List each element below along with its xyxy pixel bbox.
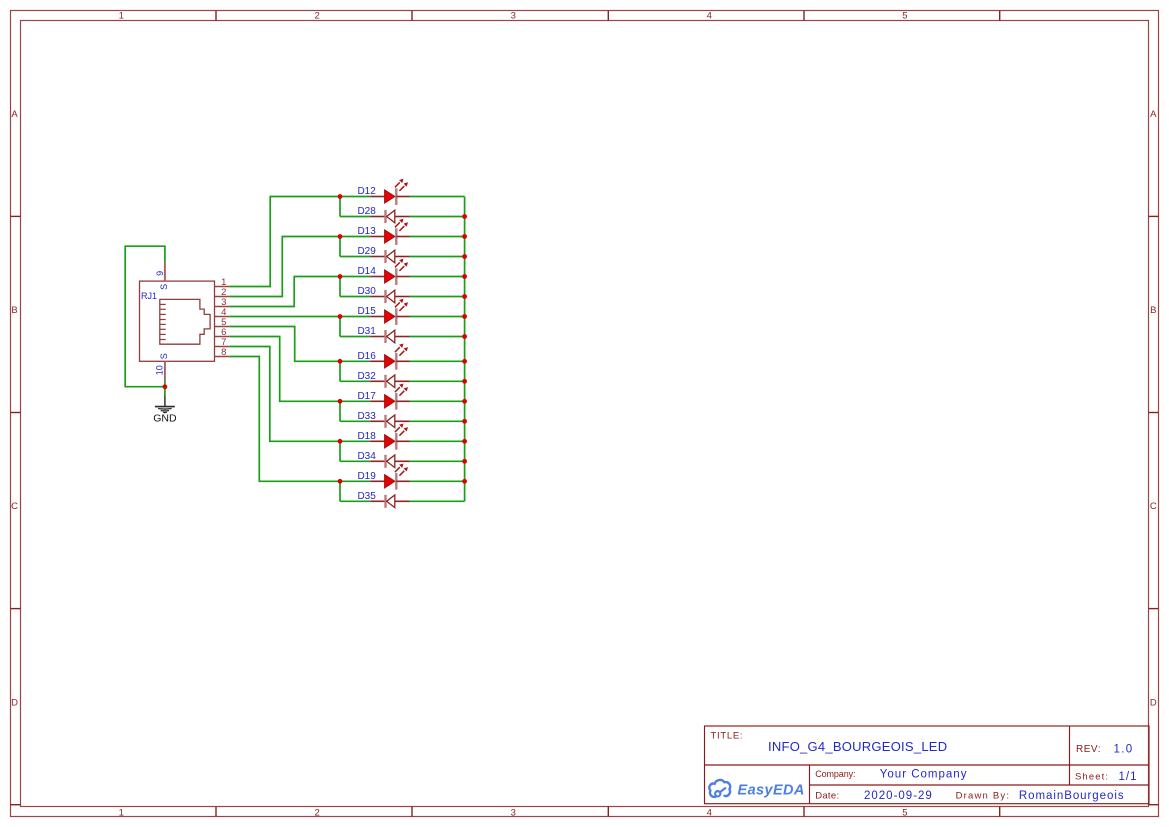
junction bus at y=401.3 (462, 399, 467, 404)
svg-text:D32: D32 (357, 371, 376, 382)
wire RJ1 pin10 to GND node (164, 381, 166, 396)
svg-text:A: A (11, 109, 18, 120)
junction D19 anode node (338, 479, 343, 484)
LED D13 (357, 219, 409, 245)
title block (705, 726, 1150, 804)
wire node D15 anode (340, 316, 370, 318)
svg-text:D: D (11, 697, 18, 708)
wire node D18 anode (340, 440, 370, 442)
svg-text:INFO_G4_BOURGEOIS_LED: INFO_G4_BOURGEOIS_LED (768, 739, 947, 754)
wire node D13 anode (340, 236, 370, 238)
junction bus at y=336.5 (462, 334, 467, 339)
svg-text:Drawn By:: Drawn By: (956, 790, 1011, 801)
svg-text:D17: D17 (357, 391, 376, 402)
wire RJ1 pin 5 to D16 (229, 327, 340, 362)
wire RJ1 pin 7 to D18 (229, 347, 340, 442)
wire D17 to bus (410, 400, 465, 402)
diode D35 (357, 491, 409, 508)
LED D15 (357, 299, 409, 325)
junction GND node (163, 384, 168, 389)
svg-text:D19: D19 (357, 471, 376, 482)
junction bus at y=296.5 (462, 294, 467, 299)
wire D29 cathode stub (340, 256, 370, 258)
svg-text:9: 9 (155, 271, 165, 276)
wire RJ1 pin 6 to D17 (229, 337, 340, 402)
svg-text:D31: D31 (357, 326, 376, 337)
wire D29 to bus (410, 256, 465, 258)
svg-text:10: 10 (155, 365, 165, 375)
svg-text:EasyEDA: EasyEDA (738, 782, 805, 798)
wire D34 to bus (410, 460, 465, 462)
wire junction drop D19 to D35 (339, 481, 341, 501)
svg-text:5: 5 (902, 11, 907, 22)
RJ1 pin 7 (215, 337, 230, 348)
connector RJ1 (140, 281, 215, 361)
svg-text:D33: D33 (357, 411, 376, 422)
wire node D19 anode (340, 480, 370, 482)
wire D32 to bus (410, 380, 465, 382)
wire D28 cathode stub (340, 216, 370, 218)
junction bus at y=361.3 (462, 359, 467, 364)
RJ1 pin 8 (215, 347, 230, 358)
junction D16 anode node (338, 359, 343, 364)
svg-text:S: S (159, 284, 169, 290)
svg-text:D29: D29 (357, 246, 376, 257)
svg-text:D12: D12 (357, 186, 376, 197)
RJ1 pin 3 (215, 297, 230, 308)
junction bus at y=461.3 (462, 459, 467, 464)
wire D14 to bus (410, 276, 465, 278)
junction D12 anode node (338, 194, 343, 199)
svg-text:D: D (1150, 697, 1157, 708)
wire junction drop D18 to D34 (339, 441, 341, 461)
wire right vertical bus (464, 197, 466, 502)
junction D14 anode node (338, 274, 343, 279)
svg-text:8: 8 (221, 347, 226, 358)
svg-text:2020-09-29: 2020-09-29 (864, 790, 933, 802)
LED D17 (357, 384, 409, 410)
RJ1 pin 1 (215, 277, 230, 288)
junction D18 anode node (338, 439, 343, 444)
svg-text:1/1: 1/1 (1119, 771, 1138, 783)
svg-text:Sheet:: Sheet: (1075, 772, 1109, 783)
title block text TITLE (711, 730, 948, 754)
junction D13 anode node (338, 234, 343, 239)
LED D18 (357, 424, 409, 450)
junction bus at y=236.5 (462, 234, 467, 239)
junction bus at y=216.5 (462, 214, 467, 219)
junction bus at y=381.3 (462, 379, 467, 384)
wire RJ1 pin 3 to D14 (229, 277, 340, 307)
RJ1 pin 5 (215, 317, 230, 328)
LED D14 (357, 259, 409, 285)
svg-text:2: 2 (315, 11, 320, 22)
svg-text:C: C (11, 501, 18, 512)
svg-text:D15: D15 (357, 306, 376, 317)
diode D34 (357, 451, 409, 468)
junction D15 anode node (338, 314, 343, 319)
wire node D16 anode (340, 360, 370, 362)
junction D17 anode node (338, 399, 343, 404)
junction bus at y=421.3 (462, 419, 467, 424)
svg-text:D18: D18 (357, 431, 376, 442)
diode D32 (357, 371, 409, 388)
wire junction drop D16 to D32 (339, 361, 341, 381)
wire D32 cathode stub (340, 380, 370, 382)
svg-text:D35: D35 (357, 491, 376, 502)
svg-text:GND: GND (153, 413, 177, 425)
svg-text:Your Company: Your Company (880, 768, 968, 780)
wire junction drop D12 to D28 (339, 197, 341, 217)
LED D19 (357, 464, 409, 490)
wire junction drop D13 to D29 (339, 237, 341, 257)
svg-text:B: B (1150, 305, 1156, 316)
wire RJ1 pin 4 to D15 (229, 316, 340, 318)
svg-text:D13: D13 (357, 226, 376, 237)
wire D12 to bus (410, 196, 465, 198)
wire D18 to bus (410, 440, 465, 442)
title block text Company (815, 768, 967, 780)
svg-text:Date:: Date: (815, 790, 839, 801)
wire D34 cathode stub (340, 460, 370, 462)
wire D35 cathode stub (340, 500, 370, 502)
svg-text:4: 4 (707, 11, 712, 22)
wire junction drop D17 to D33 (339, 401, 341, 421)
wire RJ1 pin 8 to D19 (229, 357, 340, 482)
svg-text:1.0: 1.0 (1114, 743, 1134, 755)
svg-text:S: S (159, 353, 169, 359)
wire D28 to bus (410, 216, 465, 218)
wire junction drop D14 to D30 (339, 277, 341, 297)
svg-text:D16: D16 (357, 351, 376, 362)
svg-text:1: 1 (119, 11, 124, 22)
wire RJ1 pin 1 to D12 (229, 197, 340, 287)
svg-text:Company:: Company: (815, 769, 855, 779)
diode D28 (357, 206, 409, 223)
title block text REV (1076, 743, 1133, 755)
svg-text:D34: D34 (357, 451, 376, 462)
RJ1 pin 10 (S shield) (155, 353, 170, 381)
wire RJ1 pin9 loop to GND node (125, 246, 165, 387)
RJ1 pin 4 (215, 307, 230, 318)
wire D33 to bus (410, 420, 465, 422)
diode D31 (357, 326, 409, 343)
svg-text:D30: D30 (357, 286, 376, 297)
RJ1 pin 6 (215, 327, 230, 338)
wire D30 cathode stub (340, 296, 370, 298)
wire D35 to bus (410, 500, 465, 502)
diode D33 (357, 411, 409, 428)
svg-text:4: 4 (707, 808, 712, 819)
svg-text:D14: D14 (357, 266, 376, 277)
wire node D17 anode (340, 400, 370, 402)
svg-text:5: 5 (902, 808, 907, 819)
title block text Date / Drawn By (815, 790, 1124, 802)
wire RJ1 pin 2 to D13 (229, 237, 340, 297)
wire node D14 anode (340, 276, 370, 278)
wire D31 cathode stub (340, 336, 370, 338)
junction bus at y=481.3 (462, 479, 467, 484)
diode D29 (357, 246, 409, 263)
svg-text:RomainBourgeois: RomainBourgeois (1019, 790, 1125, 802)
wire D19 to bus (410, 480, 465, 482)
svg-text:C: C (1150, 501, 1157, 512)
RJ1 pin 2 (215, 287, 230, 298)
svg-text:D28: D28 (357, 206, 376, 217)
LED D16 (357, 344, 409, 370)
LED D12 (357, 179, 409, 205)
svg-text:A: A (1150, 109, 1157, 120)
svg-text:TITLE:: TITLE: (711, 730, 744, 741)
junction bus at y=256.5 (462, 254, 467, 259)
junction bus at y=316.5 (462, 314, 467, 319)
wire D33 cathode stub (340, 420, 370, 422)
wire D31 to bus (410, 336, 465, 338)
wire junction drop D15 to D31 (339, 317, 341, 337)
wire D16 to bus (410, 360, 465, 362)
wire D13 to bus (410, 236, 465, 238)
EasyEDA logo (709, 780, 804, 798)
svg-text:2: 2 (315, 808, 320, 819)
wire node D12 anode (340, 196, 370, 198)
wire D15 to bus (410, 316, 465, 318)
RJ1 pin 9 (S shield) (155, 263, 169, 290)
svg-text:B: B (11, 305, 17, 316)
diode D30 (357, 286, 409, 303)
junction bus at y=276.5 (462, 274, 467, 279)
title block text Sheet (1075, 771, 1138, 783)
svg-text:1: 1 (119, 808, 124, 819)
svg-text:3: 3 (511, 808, 516, 819)
svg-text:3: 3 (511, 11, 516, 22)
junction bus at y=441.3 (462, 439, 467, 444)
ground GND (153, 396, 177, 425)
wire D30 to bus (410, 296, 465, 298)
svg-text:REV:: REV: (1076, 744, 1101, 755)
svg-text:RJ1: RJ1 (141, 291, 157, 301)
